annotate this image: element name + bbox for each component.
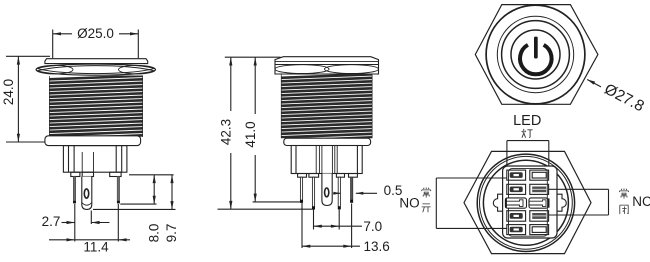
- terminal R3: [530, 211, 549, 222]
- label NC CJK (chang bi): [620, 189, 629, 215]
- dimension 9.7: [170, 175, 173, 210]
- terminal R2: [530, 184, 549, 194]
- svg-text:42.3: 42.3: [219, 119, 234, 145]
- terminal R1: [530, 170, 549, 180]
- dimension 8.0: [153, 175, 156, 204]
- terminal block inner: [509, 169, 548, 237]
- NO wire top: [436, 177, 507, 179]
- bezel inner ring: [497, 16, 573, 92]
- NO wire bottom: [436, 227, 507, 229]
- pin 1 view2: [300, 177, 303, 202]
- terminal L4: [507, 225, 526, 235]
- bezel lens view2: [275, 65, 379, 74]
- pin right view1: [117, 177, 120, 204]
- leader arrow D27.8: [587, 80, 601, 87]
- rear circle inner: [483, 160, 568, 245]
- svg-text:41.0: 41.0: [243, 121, 258, 147]
- lamp clip right: [529, 198, 549, 208]
- solder tab with hole view1: [82, 177, 92, 210]
- svg-text:13.6: 13.6: [363, 239, 389, 254]
- NC wire right: [608, 189, 610, 215]
- terminal L3: [507, 211, 526, 222]
- svg-text:7.0: 7.0: [363, 219, 382, 234]
- wing right: [557, 194, 566, 211]
- label NO CJK (chang kai): [422, 188, 431, 213]
- threaded body view2: [281, 74, 373, 141]
- pin 3 view2: [338, 177, 341, 209]
- base flange view1: [45, 136, 141, 146]
- svg-text:NC: NC: [632, 194, 650, 209]
- solder tab with hole view2: [322, 174, 332, 206]
- hex nut front: [475, 5, 598, 105]
- power symbol bar: [534, 37, 538, 59]
- pin 4 view2: [350, 177, 353, 202]
- dimension 41.0: [254, 57, 257, 202]
- button cap (flat top): [45, 59, 148, 64]
- dimension D25.0 line: [53, 30, 139, 59]
- housing view1: [63, 146, 127, 173]
- svg-text:9.7: 9.7: [164, 224, 179, 243]
- rear circle outer: [477, 154, 574, 251]
- dimension 13.6: [302, 203, 360, 248]
- lamp clip left: [505, 198, 526, 208]
- bezel outer circle: [486, 5, 585, 104]
- terminal L1: [507, 170, 526, 180]
- svg-text:8.0: 8.0: [147, 224, 162, 243]
- terminal block outer: [503, 166, 557, 238]
- NC wire top: [549, 188, 609, 190]
- label lamp (CJK deng): [522, 129, 533, 138]
- svg-text:11.4: 11.4: [83, 240, 109, 255]
- wing left: [493, 194, 502, 211]
- button edge circle: [502, 21, 570, 89]
- illuminated ring: [511, 30, 560, 79]
- svg-text:Ø25.0: Ø25.0: [77, 26, 114, 41]
- dimension 8.0 / 9.7 extension lines: [93, 175, 176, 210]
- svg-text:24.0: 24.0: [1, 79, 16, 105]
- extension lines 41.0 / 42.3 bottom: [253, 201, 303, 203]
- pin base blocks view1: [71, 172, 80, 176]
- svg-text:Ø27.8: Ø27.8: [601, 81, 646, 116]
- svg-text:2.7: 2.7: [42, 214, 61, 229]
- rear circle mid: [480, 156, 573, 249]
- lamp routing box: [507, 141, 549, 205]
- dimension 42.3: [225, 57, 281, 209]
- terminal L2: [507, 184, 526, 194]
- head view2: [275, 57, 379, 74]
- pin left view1: [73, 177, 76, 204]
- terminal R4: [530, 225, 549, 235]
- dimension 0.5: [333, 192, 377, 195]
- dimension 7.0: [314, 210, 363, 230]
- svg-text:LED: LED: [513, 113, 541, 129]
- housing view2: [291, 146, 362, 174]
- dimension 11.4: [49, 238, 130, 241]
- threaded body view1: [49, 76, 143, 139]
- base flange view2: [284, 138, 371, 145]
- dimension 24.0: [6, 56, 50, 142]
- pin base blocks view2: [298, 174, 307, 178]
- NO wire left: [435, 178, 437, 228]
- pin 2 view2: [312, 177, 315, 209]
- svg-text:NO: NO: [399, 196, 419, 211]
- power symbol arc: [520, 45, 552, 74]
- hex nut rear: [464, 151, 591, 253]
- dimension 2.7: [62, 204, 119, 242]
- NC wire bottom: [549, 214, 609, 216]
- bezel lens (side view ellipse): [36, 64, 156, 75]
